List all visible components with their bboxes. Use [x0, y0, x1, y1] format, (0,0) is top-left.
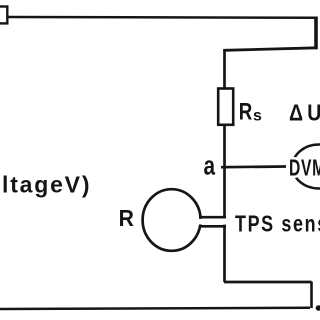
stray dot (junction) at bottom right [316, 305, 320, 311]
power supply box (cut off at left edge) [0, 7, 7, 24]
wire upper horizontal to branch [225, 48, 318, 51]
resistor Rs [218, 89, 233, 125]
wire branch vertical down to resistor [223, 49, 226, 89]
svg-text:s: s [253, 108, 262, 125]
wire right vertical (top corner) [314, 17, 318, 50]
wire resistor bottom lead down to node a and sensor [223, 125, 226, 219]
voltmeter DVM circle (cut off at right) [293, 145, 320, 189]
sensor R circle (TPS sensor) [143, 189, 201, 251]
svg-text:R: R [119, 205, 134, 231]
svg-text:a: a [204, 151, 216, 181]
svg-text:R: R [239, 98, 253, 125]
wire lower right vertical [310, 282, 313, 309]
svg-text:DVM: DVM [289, 156, 320, 182]
wire bottom long horizontal [0, 308, 310, 309]
svg-text:ΔU: ΔU [289, 100, 320, 126]
notch white gap cut into sensor circle [197, 219, 226, 225]
wire top horizontal [8, 16, 316, 19]
wire node a to DVM [221, 165, 286, 168]
svg-text:ltageV): ltageV) [2, 172, 91, 198]
sensor bottom lead [199, 225, 226, 228]
svg-text:TPS sensor: TPS sensor [235, 211, 320, 237]
wire sensor bottom to lower corner [223, 225, 226, 282]
wire lower horizontal [224, 281, 312, 284]
sensor top lead [199, 216, 226, 219]
